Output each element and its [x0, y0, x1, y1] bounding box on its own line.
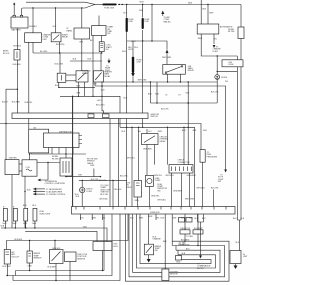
wire distributor pins: [52, 148, 73, 155]
wire bus H84: [101, 79, 217, 82]
wire vsv down: [102, 251, 104, 271]
distributor U-DST: [29, 127, 82, 153]
oil pressure sender B2: [126, 181, 142, 202]
wire long vertical x118: [119, 119, 128, 207]
wire BL-ORG run: [33, 42, 102, 53]
wire speedo drop: [93, 169, 95, 177]
svg-text:BLK-YEL: BLK-YEL: [161, 108, 169, 110]
ground right box: [234, 264, 238, 270]
svg-text:W-B: W-B: [140, 2, 145, 4]
wire resistor feeds: [184, 214, 198, 246]
arrow tap TO CRUISE CONTROL: [33, 193, 65, 196]
svg-text:BLOCK: BLOCK: [3, 53, 10, 55]
wire battery to main bus: [22, 2, 96, 15]
svg-text:BLK-RED: BLK-RED: [13, 64, 22, 66]
arrow to A/C condenser: [161, 11, 171, 24]
svg-text:BLK-YEL: BLK-YEL: [211, 91, 219, 93]
text stop light: [211, 175, 225, 190]
text speedo note: [87, 158, 98, 167]
wire x165 long drop: [163, 214, 167, 269]
svg-text:LINK: LINK: [144, 21, 149, 23]
wire second bus: [25, 231, 97, 241]
arrow rear window: [105, 59, 111, 72]
unit U-CHG charge connect: [25, 33, 52, 43]
svg-text:BLK-YEL: BLK-YEL: [25, 102, 33, 104]
svg-text:WHT-BLU: WHT-BLU: [166, 175, 175, 177]
svg-text:SW: SW: [107, 33, 110, 35]
wire H61: [70, 59, 102, 61]
wire injectors bus: [1, 221, 108, 242]
wire right rails join: [233, 218, 245, 251]
svg-text:GRN: GRN: [148, 216, 153, 218]
SEC-CENTER: [65, 96, 235, 214]
wire long L1: [0, 124, 201, 150]
wire relay U-HT pins: [93, 82, 105, 96]
diode D1: [215, 55, 238, 83]
wire x150 H84 to LC: [148, 82, 152, 103]
connector pair under bar: [179, 218, 193, 223]
wire H154: [29, 153, 86, 155]
svg-text:W-B: W-B: [188, 2, 193, 4]
wire left drop x17: [12, 60, 21, 113]
wire x95 stub ACC: [96, 96, 105, 113]
ECU main bar: [72, 207, 236, 215]
svg-text:YEL-BLK: YEL-BLK: [114, 189, 123, 191]
injector INJ1: [3, 206, 8, 224]
resistor R2: [193, 228, 203, 234]
switch U-SI start injector time: [92, 26, 115, 36]
svg-text:FUSE LINK: FUSE LINK: [104, 8, 115, 10]
fusible link FL2 (thick): [126, 18, 135, 32]
wire bus H86: [95, 85, 226, 170]
wire relay to fuse x60: [55, 42, 64, 73]
wire right rail A: [240, 39, 242, 221]
svg-text:COMPUTER: COMPUTER: [179, 245, 190, 247]
wire battery positive: [13, 2, 15, 15]
svg-text:No.4: No.4: [32, 223, 36, 225]
svg-text:W-R BLK: W-R BLK: [13, 45, 22, 47]
svg-text:GRN-YEL: GRN-YEL: [154, 175, 162, 177]
svg-text:DIODE: DIODE: [221, 77, 228, 79]
connector bottom fan: [176, 256, 182, 264]
svg-text:FUSE: FUSE: [229, 64, 235, 66]
svg-text:TO TAIL: TO TAIL: [186, 235, 193, 238]
ground heater relay: [147, 255, 151, 263]
svg-text:No.3: No.3: [23, 223, 27, 225]
svg-text:RELAY: RELAY: [160, 140, 167, 143]
wire x157 H84 to LC: [155, 82, 159, 104]
svg-text:FILTER: FILTER: [228, 31, 235, 33]
noise filter NF1: [228, 5, 244, 39]
svg-text:W-R: W-R: [193, 130, 197, 132]
wire alternator L terminal: [213, 34, 222, 53]
igniter U-IGR: [5, 157, 19, 174]
svg-text:W-L: W-L: [225, 81, 228, 83]
svg-text:SENSOR: SENSOR: [77, 258, 86, 260]
wire battery neg feed left: [13, 28, 22, 50]
wire FL4 arrow to H84: [132, 77, 134, 82]
wire igniter ground: [11, 175, 13, 228]
wire bottom left H280: [13, 214, 120, 281]
wire x101 down to H84: [100, 53, 102, 82]
svg-text:COIL: COIL: [26, 167, 30, 169]
unit U-RB right box: [230, 251, 248, 264]
label BLK WHT: [128, 47, 138, 51]
wire misc pin stubs: [81, 214, 156, 220]
svg-text:BLK-WHT: BLK-WHT: [194, 228, 203, 230]
svg-text:WHT-GRN: WHT-GRN: [162, 57, 172, 59]
wire condenser bottom: [65, 154, 67, 177]
svg-text:INJECTORS: INJECTORS: [40, 213, 51, 215]
svg-text:B-W: B-W: [88, 59, 92, 61]
wire drop to fuse link 2: [139, 4, 143, 18]
alternator G1: [197, 24, 233, 34]
svg-text:BRN: BRN: [135, 200, 140, 202]
svg-text:ACC: ACC: [98, 99, 103, 102]
wire nest pin3: [133, 214, 220, 272]
svg-text:METER: METER: [197, 268, 204, 270]
svg-text:YEL: YEL: [213, 38, 217, 40]
svg-text:YEL: YEL: [156, 218, 160, 220]
svg-text:GRN-RED: GRN-RED: [143, 148, 152, 150]
wire U-SI top: [98, 16, 100, 26]
fuse F-AM: [3, 50, 21, 66]
svg-text:GRN: GRN: [158, 131, 163, 133]
svg-text:BLK-YEL: BLK-YEL: [211, 188, 219, 190]
svg-text:RELAY: RELAY: [104, 75, 111, 78]
wire right rail B: [236, 56, 238, 220]
injector INJ3: [23, 205, 28, 225]
sensor B-OX oxygen: [162, 269, 179, 281]
fusible link FL main (thick): [103, 4, 123, 10]
fuel pump M1: [145, 175, 161, 186]
relay U-SR (with diagonal): [48, 241, 64, 269]
svg-text:GRN: GRN: [172, 218, 177, 220]
svg-text:WHT-BLU: WHT-BLU: [127, 158, 136, 160]
svg-text:BLK-WHT: BLK-WHT: [48, 266, 57, 268]
svg-text:SWITCH: SWITCH: [150, 116, 158, 118]
SEC-MID: [0, 42, 227, 228]
wire bottom left H275: [6, 214, 112, 276]
svg-text:BLK/ORG: BLK/ORG: [56, 44, 65, 46]
svg-text:WHT-RED: WHT-RED: [138, 79, 147, 81]
text fuel pump resistor: [157, 184, 167, 193]
wire H176: [65, 175, 106, 183]
svg-text:BL-ORG: BL-ORG: [40, 51, 48, 53]
svg-text:B-W: B-W: [161, 218, 165, 220]
svg-text:YEL: YEL: [138, 131, 142, 133]
wire fuel pump down: [149, 186, 166, 206]
svg-text:GND: GND: [28, 265, 33, 267]
wire bus H96: [60, 96, 120, 128]
relay U-CO circuit opening: [142, 134, 169, 151]
wire long L2: [120, 127, 195, 128]
wire fuel pressure down: [197, 162, 206, 206]
svg-text:RELAY: RELAY: [62, 36, 69, 39]
wire horizontal H41: [127, 40, 167, 49]
svg-text:ORANGE: ORANGE: [153, 238, 162, 241]
wire oil sender pins: [137, 127, 140, 206]
resistor R1: [180, 228, 191, 234]
svg-text:WHT-BLK: WHT-BLK: [197, 188, 206, 190]
wire x188 H84 down: [186, 82, 190, 127]
svg-text:IDLE-UP: IDLE-UP: [12, 256, 20, 258]
svg-text:TO A/C AMPLIFIER: TO A/C AMPLIFIER: [46, 191, 63, 194]
wire coil to condenser: [37, 162, 60, 163]
svg-text:W-R BLK: W-R BLK: [29, 26, 38, 28]
svg-text:BRN: BRN: [139, 218, 144, 220]
svg-text:PRESSURE: PRESSURE: [207, 156, 218, 158]
svg-text:GND: GND: [176, 262, 181, 264]
svg-text:GRN-YEL: GRN-YEL: [151, 196, 159, 198]
svg-text:RELAY: RELAY: [188, 69, 195, 72]
fuse F2: [55, 73, 66, 87]
svg-text:RELAY: RELAY: [82, 72, 89, 75]
ignition coil T1: [22, 154, 37, 176]
wire FL2 down to H41: [126, 32, 128, 207]
svg-text:W-G: W-G: [134, 47, 138, 49]
svg-text:SW: SW: [157, 190, 160, 192]
wire relay UCO pins: [147, 129, 155, 175]
wire alternator feeds: [201, 0, 214, 24]
injector INJ4: [32, 205, 37, 225]
wire main bus W-B: [95, 2, 241, 5]
wire coil negative: [24, 176, 25, 228]
wire ign relay pins: [165, 74, 181, 97]
fuel pressure switch S1: [200, 150, 218, 163]
wire bus BLK-BLK: [6, 214, 128, 250]
wire injector to BL-ORG: [101, 52, 103, 53]
svg-text:ALTERNATOR: ALTERNATOR: [220, 25, 233, 28]
svg-text:SW: SW: [155, 250, 158, 252]
svg-text:INJ: INJ: [106, 49, 109, 51]
label W-B harness: [83, 227, 87, 229]
wire CC2 top feed: [188, 102, 189, 164]
wire stop light pin: [213, 190, 215, 207]
wire distributor feed: [28, 119, 30, 130]
svg-text:LINK: LINK: [137, 62, 142, 64]
wire nest pin1: [125, 214, 229, 281]
svg-text:BLK-YEL: BLK-YEL: [120, 175, 128, 177]
svg-text:BLK-ORG: BLK-ORG: [55, 64, 64, 66]
wire bottom left H270: [16, 214, 104, 271]
wire x194 drop: [193, 127, 208, 206]
wire x113 drop: [113, 180, 122, 206]
throttle position sensor B-TP: [65, 252, 88, 262]
wire stop light arrow: [224, 170, 227, 173]
svg-text:WHT-GRN: WHT-GRN: [185, 199, 195, 201]
svg-text:GRN-WHT: GRN-WHT: [187, 175, 197, 177]
ECU pin labels: [80, 216, 193, 219]
svg-text:BATTERY: BATTERY: [12, 29, 22, 32]
wire x126 H84 to L2: [124, 97, 128, 99]
wire CC2 pins down: [154, 173, 197, 207]
fusible link FL3 (thick): [142, 18, 151, 29]
wire left drop x5: [2, 89, 17, 159]
arrow tap TO TACHOMETER: [27, 188, 63, 192]
labels under L2: [122, 131, 163, 133]
svg-text:BLK-RED: BLK-RED: [12, 102, 21, 104]
wire FL3 down to H41: [131, 30, 142, 127]
wire fuse F2 pins: [58, 75, 95, 88]
wire x55 feed: [53, 7, 57, 33]
label fuel injectors: [40, 211, 51, 215]
svg-text:LIGHT: LIGHT: [213, 51, 219, 53]
wire sensor pins to bottom: [7, 262, 70, 281]
svg-text:No.1: No.1: [3, 223, 7, 225]
sensor B-WT water temp: [27, 241, 42, 268]
wire harness feed: [81, 7, 82, 28]
wire trunk x72 (thick): [72, 96, 74, 206]
fuse block FB (long bar): [12, 113, 159, 119]
svg-text:TO CRUISE CONTROL: TO CRUISE CONTROL: [46, 194, 66, 196]
svg-text:BLK-BLK: BLK-BLK: [15, 239, 24, 241]
fusible link FL4 (thick, lower): [131, 41, 142, 77]
wire vertical x152 bus to H41: [151, 4, 152, 41]
svg-text:W-G: W-G: [181, 218, 185, 220]
junction box top-right: [222, 60, 243, 67]
text to computer: [179, 242, 190, 246]
svg-text:TO TACHOMETER: TO TACHOMETER: [46, 188, 63, 191]
wire return trunk: [171, 214, 173, 246]
svg-text:W-R: W-R: [53, 26, 57, 28]
injector INJ2: [13, 206, 18, 224]
svg-text:No.2: No.2: [13, 223, 17, 225]
relay U-HT heater (with diagonal): [93, 70, 112, 82]
svg-text:BLK-YEL: BLK-YEL: [100, 194, 108, 196]
wire long vertical x132: [127, 127, 136, 206]
svg-text:CONTROL COMPUTER: CONTROL COMPUTER: [45, 183, 66, 185]
arrow tap TO A/C AMPLIFIER: [33, 190, 63, 193]
wire nest pin5: [140, 214, 211, 264]
check connector CC2 (box): [169, 160, 193, 173]
svg-text:SW: SW: [218, 181, 221, 183]
battery B1: [11, 15, 28, 31]
svg-text:IGNITER: IGNITER: [9, 157, 17, 159]
injector INJ-CS cold start: [99, 36, 112, 52]
svg-text:WHT-BLU: WHT-BLU: [158, 200, 167, 202]
wire diode down: [211, 79, 219, 103]
condenser U-CND: [52, 156, 72, 176]
svg-text:FILTER: FILTER: [52, 158, 59, 160]
SEC-BOTTOM: [1, 190, 249, 282]
svg-text:GRN-WHT: GRN-WHT: [173, 190, 183, 192]
relay U-EFI (with diagonal): [144, 214, 161, 255]
wire to igniter computer: [38, 163, 66, 186]
valve V-AC a/c air idle up: [3, 241, 20, 269]
svg-text:PUMP: PUMP: [155, 180, 161, 182]
wire x33 feed: [29, 7, 38, 33]
wire long vertical x110: [109, 119, 111, 207]
wire nest pin2: [129, 214, 225, 277]
svg-text:SENSOR: SENSOR: [34, 258, 43, 260]
arrow to ignition switch: [162, 50, 172, 65]
wire U-SI pin left: [90, 36, 94, 97]
relay U-ST starter (with diagonal): [51, 33, 69, 46]
svg-text:DISTRIBUTOR: DISTRIBUTOR: [59, 131, 72, 133]
svg-text:EGR: EGR: [114, 246, 119, 248]
vsv VSV1: [93, 242, 118, 251]
wire x28 charge unit to fuse block: [25, 42, 33, 113]
svg-text:BLK-R: BLK-R: [2, 102, 8, 104]
text cold start note: [99, 185, 110, 201]
wire combo meter pair: [195, 214, 211, 270]
svg-text:BLK-YEL: BLK-YEL: [91, 179, 99, 181]
labels return fan: [178, 240, 190, 256]
SEC-TOP: [3, 0, 244, 220]
wire LC diode feed: [150, 102, 217, 110]
wire drop to fuse link 1: [122, 4, 128, 53]
wire check connector pins: [75, 180, 83, 206]
svg-text:RESISTOR: RESISTOR: [181, 228, 191, 230]
svg-text:HARN: HARN: [67, 29, 73, 32]
svg-text:SENSOR: SENSOR: [170, 274, 179, 276]
wire igniter-coil links: [19, 164, 22, 171]
svg-text:FUSE BOX: FUSE BOX: [150, 212, 160, 214]
svg-text:LINK: LINK: [129, 21, 134, 23]
wire relay U-IG pins: [77, 82, 85, 96]
wire H182: [79, 179, 127, 181]
wire x167 L2 to CC2: [166, 127, 168, 164]
svg-text:CONN: CONN: [86, 191, 92, 193]
svg-text:SNDR: SNDR: [126, 187, 132, 189]
svg-text:GROUND: GROUND: [99, 199, 108, 201]
check connector CC1 (circle): [80, 187, 94, 193]
svg-text:FAN A/C: FAN A/C: [164, 20, 172, 23]
svg-text:THIS: THIS: [90, 165, 95, 167]
wire nest pin4: [136, 214, 215, 268]
harness box U-H: [67, 28, 90, 39]
relay U-IGN main (with diagonal): [163, 65, 195, 75]
wire x184 drop: [182, 127, 186, 165]
relay U-IG ignition (with diagonal): [76, 71, 91, 82]
wire alternator output: [198, 34, 238, 56]
svg-text:BLK-ORG: BLK-ORG: [96, 105, 105, 107]
wire harness down: [80, 39, 84, 71]
